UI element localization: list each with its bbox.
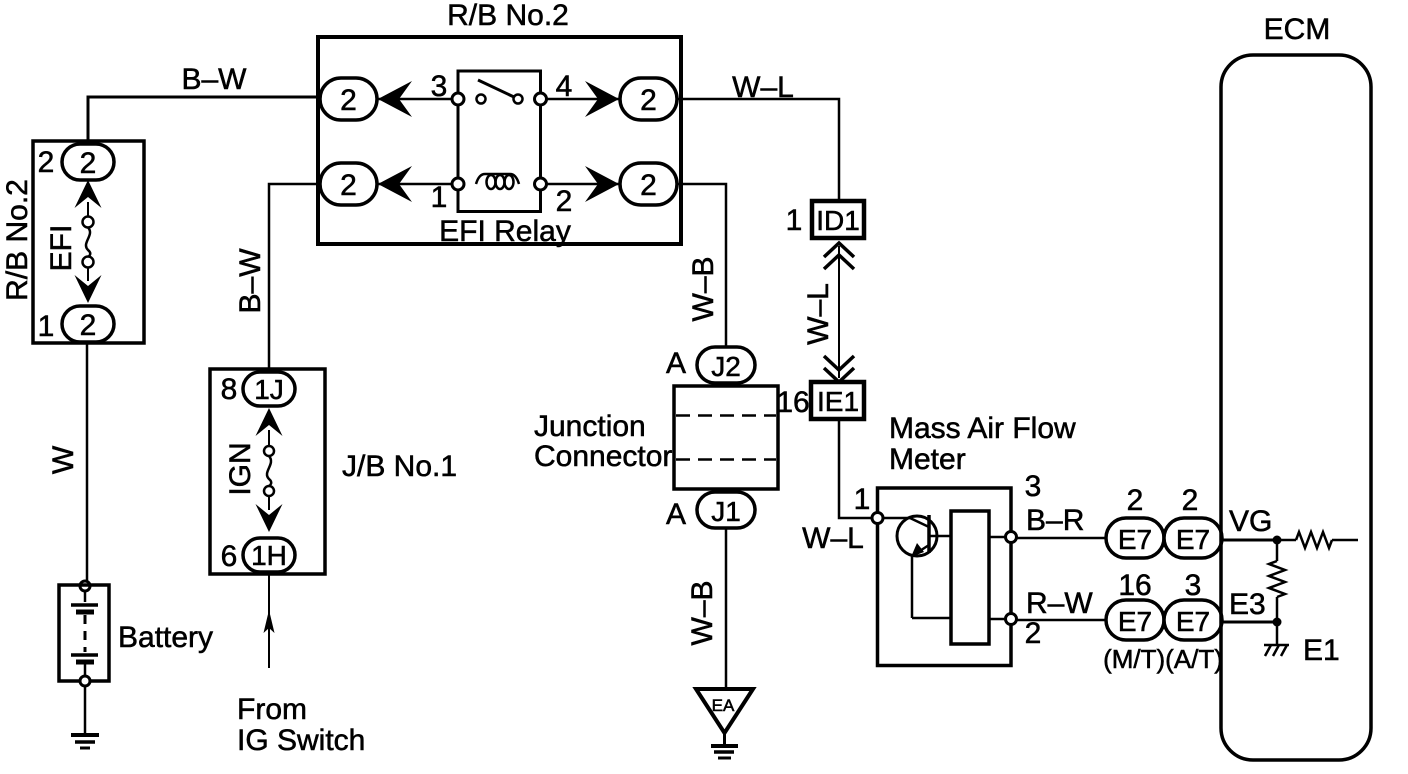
svg-text:1: 1 (38, 310, 55, 343)
svg-text:6: 6 (221, 540, 238, 573)
wires element to pins 3,2 (989, 536, 1011, 539)
node pin 1 (872, 513, 883, 524)
arrow into bottom-left connector (378, 166, 412, 202)
svg-text:ECM: ECM (1264, 13, 1331, 46)
svg-text:E7: E7 (1176, 524, 1210, 555)
svg-text:Junction: Junction (534, 410, 646, 443)
svg-text:J/B No.1: J/B No.1 (342, 450, 457, 483)
node E3 junction (1273, 618, 1282, 627)
svg-text:E7: E7 (1118, 606, 1152, 637)
wire: relay top row (348, 98, 458, 101)
EFI relay internal box (458, 71, 541, 212)
svg-text:Meter: Meter (889, 443, 966, 476)
ground (battery) (71, 686, 99, 748)
connector 2 (bottom of left R/B) (62, 306, 114, 342)
svg-text:(M/T)(A/T): (M/T)(A/T) (1103, 644, 1223, 674)
svg-text:2: 2 (80, 309, 97, 342)
connector E7 (M/T, VG) (1106, 518, 1164, 558)
connector 2 (relay top-left) (320, 78, 377, 120)
svg-text:IGN: IGN (224, 442, 257, 495)
svg-text:2: 2 (640, 169, 657, 202)
fuse EFI (45, 180, 102, 303)
sensing element (951, 511, 989, 644)
node pin 3 (1006, 532, 1017, 543)
svg-text:2: 2 (1127, 484, 1144, 517)
separation chevrons (down, above IE1) (824, 356, 854, 382)
svg-text:W–B: W–B (687, 256, 720, 321)
J/B No.1 box (210, 369, 325, 574)
svg-text:2: 2 (556, 185, 573, 218)
wire B-W horizontal top (88, 63, 320, 144)
arrow into bottom-right connector (585, 166, 619, 202)
svg-text:IG Switch: IG Switch (237, 724, 365, 757)
svg-text:Connector: Connector (534, 440, 672, 473)
svg-text:E7: E7 (1176, 606, 1210, 637)
svg-text:EFI Relay: EFI Relay (439, 215, 571, 248)
svg-text:J1: J1 (711, 496, 741, 527)
ground E1 (1264, 622, 1340, 667)
battery (59, 581, 213, 686)
wire W-L from IE1 to MAF pin 1 (802, 419, 872, 555)
wire B-R (1017, 504, 1107, 538)
svg-text:W: W (47, 445, 80, 474)
resistor (horizontal) (1277, 532, 1358, 548)
wire: relay bottom row (348, 183, 458, 186)
svg-text:B–R: B–R (1026, 504, 1084, 537)
svg-text:3: 3 (1025, 470, 1042, 503)
terminal E3 (1222, 588, 1277, 622)
relay coil (476, 174, 519, 189)
svg-text:EFI: EFI (45, 225, 78, 272)
svg-text:8: 8 (221, 373, 238, 406)
connector E7 (M/T, E3) (1106, 600, 1164, 640)
relay box R/B No.2 (318, 37, 681, 244)
junction connector box (674, 386, 778, 489)
svg-text:Mass Air Flow: Mass Air Flow (889, 412, 1076, 445)
svg-text:B–W: B–W (234, 248, 267, 314)
connector J2 (666, 347, 755, 383)
svg-text:W–L: W–L (732, 71, 794, 104)
svg-text:EA: EA (712, 696, 735, 715)
svg-text:E1: E1 (1303, 634, 1340, 667)
svg-text:16: 16 (1118, 569, 1151, 602)
svg-text:16: 16 (776, 386, 809, 419)
svg-text:1H: 1H (251, 540, 287, 571)
svg-text:ID1: ID1 (816, 205, 860, 236)
transistor Q (883, 515, 951, 618)
connector E7 (A/T, E3) (1164, 600, 1222, 640)
svg-text:A: A (666, 347, 686, 380)
svg-text:VG: VG (1229, 505, 1272, 538)
ECM box (1221, 55, 1371, 760)
wire from IG switch (237, 574, 365, 757)
svg-text:Battery: Battery (118, 621, 213, 654)
arrow into top-left connector (378, 81, 412, 117)
fuse IGN (224, 408, 283, 532)
junction block R/B No.2 (left) (33, 141, 144, 343)
connector ID1 (812, 201, 864, 238)
svg-text:2: 2 (640, 84, 657, 117)
node pin 2 (1006, 614, 1017, 625)
connector 2 (relay bottom-left) (320, 163, 377, 205)
relay pin nodes (452, 93, 464, 105)
node VG junction (1273, 536, 1282, 545)
svg-text:2: 2 (1025, 617, 1042, 650)
separation chevrons (up, below ID1) (824, 243, 854, 269)
wire R-W (1017, 587, 1107, 620)
connector 1H (243, 538, 295, 572)
wire B-W to J/B No.1 (234, 184, 320, 371)
svg-text:R–W: R–W (1026, 587, 1093, 620)
svg-text:2: 2 (1182, 484, 1199, 517)
wire W-B relay to J2 (677, 184, 726, 348)
svg-text:J2: J2 (711, 351, 741, 382)
connector IE1 (811, 382, 864, 419)
connector E7 (A/T, VG) (1164, 518, 1222, 558)
svg-text:W–B: W–B (686, 580, 719, 645)
svg-text:W–L: W–L (802, 522, 864, 555)
svg-text:1: 1 (786, 204, 803, 237)
ground EA (696, 689, 753, 758)
svg-text:2: 2 (80, 147, 97, 180)
svg-text:R/B No.2: R/B No.2 (447, 0, 569, 32)
svg-text:3: 3 (1185, 569, 1202, 602)
connector 2 (relay bottom-right) (620, 163, 677, 205)
svg-text:1J: 1J (254, 374, 284, 405)
svg-text:2: 2 (340, 84, 357, 117)
svg-text:E3: E3 (1229, 588, 1266, 621)
relay switch contact (477, 80, 523, 104)
svg-text:2: 2 (38, 146, 55, 179)
svg-text:E7: E7 (1118, 524, 1152, 555)
connector J1 (666, 492, 755, 531)
connector 2 (relay top-right) (620, 78, 677, 120)
svg-text:1: 1 (854, 483, 871, 516)
arrow into top-right connector (585, 81, 619, 117)
connector 2 (top of left R/B) (62, 144, 114, 180)
svg-text:4: 4 (556, 70, 573, 103)
mass air flow meter box (878, 488, 1012, 666)
svg-text:R/B No.2: R/B No.2 (1, 179, 34, 301)
svg-text:A: A (666, 498, 686, 531)
wire W-L between ID1 and IE1 (802, 246, 839, 378)
svg-text:W–L: W–L (802, 283, 835, 345)
terminal VG (1222, 505, 1277, 540)
connector 1J (243, 372, 295, 406)
svg-text:From: From (237, 693, 307, 726)
svg-text:2: 2 (340, 169, 357, 202)
wire W-L relay to ID1 (677, 71, 839, 201)
svg-text:B–W: B–W (181, 63, 247, 96)
wire W (battery feed) (47, 342, 87, 581)
resistor (vertical, VG to E3) (1269, 540, 1285, 622)
wire W-B to ground EA (686, 528, 726, 687)
svg-text:IE1: IE1 (817, 386, 859, 417)
svg-text:3: 3 (431, 70, 448, 103)
svg-text:1: 1 (431, 181, 448, 214)
